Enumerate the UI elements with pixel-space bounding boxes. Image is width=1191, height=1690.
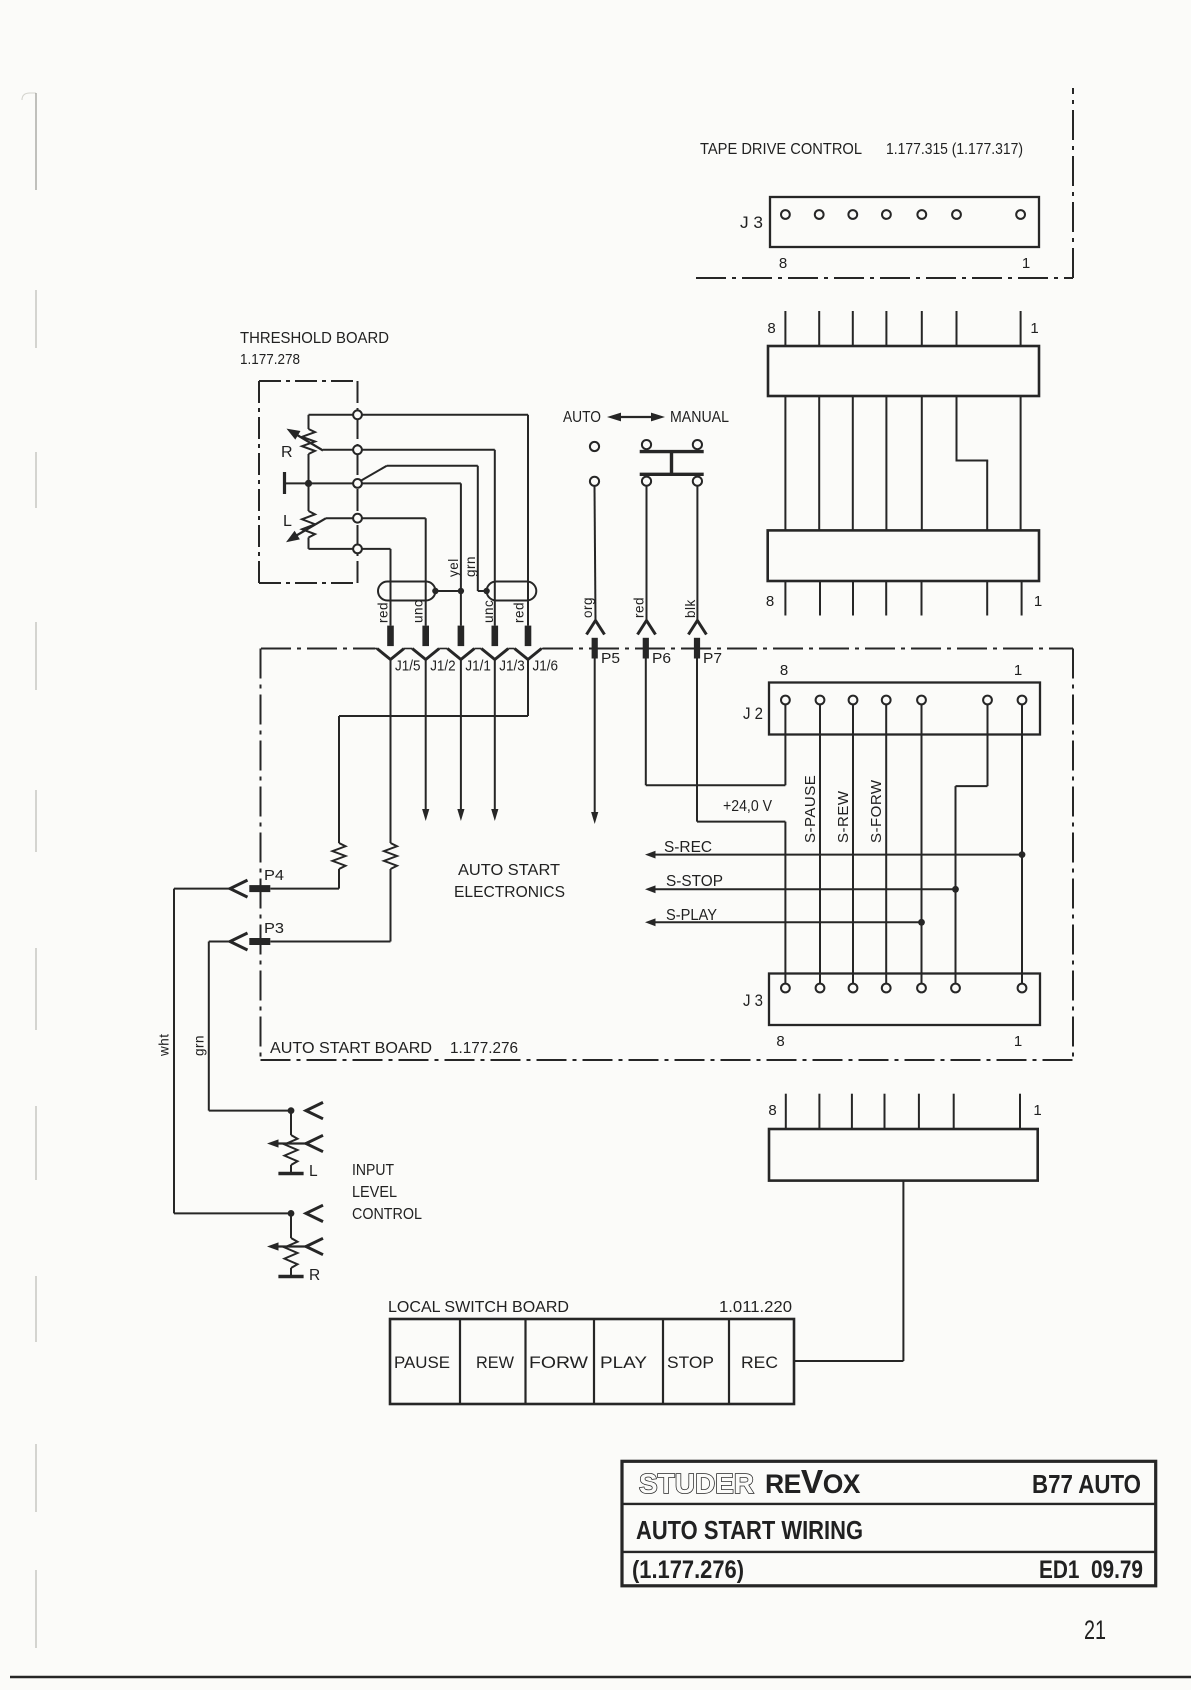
page number 21 [1084, 1615, 1106, 1645]
label P6 [652, 651, 671, 667]
svg-text:LOCAL SWITCH BOARD: LOCAL SWITCH BOARD [388, 1299, 569, 1316]
svg-text:REVOX: REVOX [765, 1464, 861, 1501]
svg-text:1: 1 [1014, 662, 1023, 679]
wire colour label grn (diagonal branch) [463, 556, 478, 577]
cable bundle oval right [487, 582, 537, 601]
svg-text:1.177.276: 1.177.276 [450, 1040, 518, 1057]
svg-text:STOP: STOP [667, 1354, 714, 1372]
svg-text:grn: grn [463, 556, 478, 577]
plug fork P3 [230, 933, 270, 950]
svg-text:J1/3: J1/3 [499, 659, 525, 675]
vertical label grn [191, 1035, 206, 1056]
wire J2.1 to J3.1 [1021, 700, 1023, 988]
wire org AUTO contact to P5 [595, 486, 596, 621]
switch AUTO contacts (open) [590, 442, 599, 486]
scan margin broken vertical line left edge [35, 290, 37, 1648]
svg-text:THRESHOLD BOARD: THRESHOLD BOARD [240, 330, 389, 347]
svg-text:21: 21 [1084, 1615, 1106, 1645]
connector pin J1/3 [492, 626, 499, 647]
svg-text:1.011.220: 1.011.220 [719, 1299, 792, 1316]
wire S-FORW J2.5 to J3.5 [885, 700, 887, 988]
plug label J1/6 [533, 659, 559, 675]
bottom page edge line [10, 1676, 1191, 1678]
dash-dot boundary tape drive control [696, 88, 1073, 278]
svg-text:AUTO START: AUTO START [458, 862, 561, 879]
switch button REC [741, 1354, 778, 1372]
svg-text:wht: wht [156, 1033, 171, 1057]
wire J1/5 to P3 [270, 660, 397, 942]
terminal circles threshold board edge [353, 410, 362, 553]
switch button REW [476, 1354, 514, 1372]
wire red T5 to J1/5 [358, 549, 391, 626]
connector J2 [769, 683, 1040, 735]
label P4 [264, 868, 284, 884]
label J3 [740, 214, 763, 232]
label P5 [601, 651, 620, 667]
connector pin J1/1 [458, 626, 465, 647]
svg-text:P6: P6 [652, 651, 671, 667]
scan margin mark top-left [22, 93, 36, 190]
wire colour label red (J1/5) [376, 602, 391, 623]
wire P5 arrow into electronics [591, 659, 598, 825]
title ED1 09.79 [1039, 1556, 1143, 1584]
wire number 8 (stubs) [766, 593, 775, 610]
svg-text:S-REW: S-REW [835, 790, 852, 843]
title (1.177.276) [632, 1556, 744, 1584]
signal S-PLAY [645, 907, 925, 926]
svg-text:PAUSE: PAUSE [394, 1354, 450, 1372]
wire number 8 (ribbon upper) [767, 320, 776, 337]
wire grn T3 diagonal branch [360, 466, 487, 591]
svg-text:FORW: FORW [529, 1354, 588, 1372]
wire J1/3 arrow into electronics [491, 660, 498, 822]
svg-text:TAPE DRIVE CONTROL: TAPE DRIVE CONTROL [700, 141, 862, 158]
ribbon connector box local switch [769, 1129, 1038, 1181]
svg-text:1: 1 [1014, 1033, 1023, 1050]
svg-text:J1/1: J1/1 [465, 659, 491, 675]
plug label J1/1 [465, 659, 491, 675]
vertical label S-FORW [868, 779, 885, 843]
ribbon cable middle (wires with crossover) [785, 396, 1020, 531]
svg-text:red: red [512, 602, 527, 623]
wire red T1 to J1/6 [358, 415, 529, 626]
svg-text:8: 8 [766, 593, 775, 610]
svg-text:S-REC: S-REC [664, 839, 712, 856]
svg-text:8: 8 [779, 255, 788, 272]
switch button FORW [529, 1354, 588, 1372]
svg-text:P4: P4 [264, 868, 284, 884]
svg-text:INPUT: INPUT [352, 1162, 394, 1179]
wire colour label blk [683, 599, 698, 618]
wire colour label unc (J1/2) [411, 600, 426, 623]
label AUTO START BOARD 1.177.276 [270, 1040, 518, 1057]
plug label J1/3 [499, 659, 525, 675]
svg-text:1.177.315 (1.177.317): 1.177.315 (1.177.317) [886, 141, 1023, 158]
ribbon cable upper (8 wires) [785, 311, 1020, 347]
wire J2.4 to J3.4 [921, 700, 923, 988]
svg-text:P7: P7 [703, 651, 722, 667]
svg-text:red: red [632, 597, 647, 618]
input level pot L [267, 1102, 323, 1173]
svg-text:8: 8 [780, 662, 789, 679]
label J3 (board) [743, 992, 763, 1010]
svg-text:R: R [281, 444, 293, 461]
wire colour label unc (J1/3) [481, 600, 496, 623]
input level pot R [267, 1205, 323, 1276]
pin number 8 (J2) [780, 662, 789, 679]
plug fork P7 [688, 621, 706, 659]
svg-text:AUTO: AUTO [563, 409, 601, 426]
wire S-REW J2.6 to J3.6 [852, 700, 854, 988]
svg-text:STUDER: STUDER [639, 1468, 754, 1499]
wire colour label red (P6) [632, 597, 647, 618]
wire S-PAUSE J2.7 to J3.7 [819, 700, 821, 988]
pin number 8 (J3 tape) [779, 255, 788, 272]
svg-text:(1.177.276): (1.177.276) [632, 1556, 744, 1584]
wire colour label org [580, 597, 595, 618]
signal S-STOP [645, 873, 959, 893]
svg-text:1: 1 [1034, 593, 1043, 610]
svg-text:1: 1 [1030, 320, 1039, 337]
wire P6 to J2 pin 8 [646, 659, 786, 786]
plug label J1/2 [430, 659, 456, 675]
wire grn P3 to input level L [209, 942, 291, 1111]
connector J3 tape drive control [770, 197, 1039, 247]
svg-text:S-STOP: S-STOP [666, 873, 723, 890]
svg-text:L: L [283, 513, 292, 530]
svg-text:unc: unc [481, 600, 496, 623]
label AUTO START ELECTRONICS [454, 862, 565, 901]
svg-text:1: 1 [1033, 1102, 1042, 1119]
wire J1/6 to P4 via resistor [270, 660, 528, 889]
plug fork P6 [638, 621, 656, 659]
title B77 AUTO [1032, 1471, 1141, 1499]
svg-text:+24,0 V: +24,0 V [723, 798, 773, 815]
link wire between bundles [432, 588, 490, 594]
svg-text:P5: P5 [601, 651, 620, 667]
label J2 [743, 705, 763, 723]
pin number 1 (J3 board) [1014, 1033, 1023, 1050]
title TAPE DRIVE CONTROL 1.177.315 (1.177.317) [700, 141, 1023, 158]
svg-text:AUTO START WIRING: AUTO START WIRING [636, 1517, 863, 1545]
potentiometer L (threshold) [286, 483, 358, 549]
wire wht P4 to input level R [174, 889, 291, 1214]
connector J3 auto start board [769, 974, 1040, 1026]
chassis tap bar [285, 472, 309, 494]
vertical label wht [156, 1033, 171, 1057]
pin number 1 (J3 tape) [1022, 255, 1031, 272]
switch button PLAY [600, 1354, 647, 1372]
svg-text:REC: REC [741, 1354, 778, 1372]
wire colour label yel (J1/1) [446, 558, 461, 577]
wire colour label red (J1/6) [512, 602, 527, 623]
plug label J1/5 [395, 659, 421, 675]
wire unc T4 to J1/2 [358, 518, 426, 625]
connector pin J1/2 [422, 626, 429, 647]
wire blk MANUAL contact to P7 [696, 486, 698, 621]
connector pin J1/5 [387, 626, 394, 647]
pin number 1 (J2) [1014, 662, 1023, 679]
svg-text:PLAY: PLAY [600, 1354, 647, 1372]
svg-text:S-PAUSE: S-PAUSE [802, 775, 819, 843]
svg-text:8: 8 [767, 320, 776, 337]
svg-text:AUTO START BOARD: AUTO START BOARD [270, 1040, 432, 1057]
svg-text:J1/2: J1/2 [430, 659, 456, 675]
svg-text:REW: REW [476, 1354, 514, 1372]
ribbon connector box lower [768, 530, 1039, 581]
ribbon stubs to local switch board [786, 1094, 1020, 1130]
wire J2.2 jog to J3.3 [956, 700, 988, 988]
wire number 8 (lower ribbon) [768, 1102, 777, 1119]
svg-text:org: org [580, 597, 595, 618]
wire ribbon to REC switch [794, 1181, 903, 1361]
title block frame [622, 1461, 1156, 1586]
connector pin J1/6 [525, 626, 532, 647]
wire number 1 (lower ribbon) [1033, 1102, 1042, 1119]
svg-text:8: 8 [776, 1033, 785, 1050]
svg-text:B77 AUTO: B77 AUTO [1032, 1471, 1141, 1499]
svg-text:J 2: J 2 [743, 705, 763, 723]
wire number 1 (ribbon upper) [1030, 320, 1039, 337]
svg-text:S-FORW: S-FORW [868, 779, 885, 843]
label AUTO [563, 409, 601, 426]
svg-text:ED1 09.79: ED1 09.79 [1039, 1556, 1143, 1584]
wire yel T3 to J1/1 [358, 483, 461, 625]
svg-text:MANUAL: MANUAL [670, 409, 729, 426]
junction dot pot chain center [305, 480, 358, 487]
double arrow auto-manual [607, 413, 665, 422]
plug fork P4 [230, 880, 270, 897]
label P3 [264, 921, 284, 937]
svg-text:J 3: J 3 [740, 214, 763, 232]
svg-text:J 3: J 3 [743, 992, 763, 1010]
auto start board dash-dot outline [261, 649, 1074, 1061]
connector J3 circles [781, 984, 1026, 993]
label +24,0V [723, 798, 773, 815]
wire J1/1 arrow into electronics [457, 660, 464, 822]
label R (threshold pot) [281, 444, 293, 461]
label R (input level) [309, 1267, 320, 1284]
plug fork P5 [587, 621, 605, 659]
ribbon stubs below box [785, 581, 1021, 616]
ribbon connector box upper [768, 346, 1039, 396]
pin number 8 (J3 board) [776, 1033, 785, 1050]
svg-text:8: 8 [768, 1102, 777, 1119]
signal S-REC [645, 839, 1025, 859]
svg-text:1.177.278: 1.177.278 [240, 351, 300, 368]
svg-text:J1/6: J1/6 [533, 659, 559, 675]
label L (input level) [309, 1163, 318, 1180]
wire unc T2 to J1/3 [358, 450, 495, 626]
svg-text:ELECTRONICS: ELECTRONICS [454, 884, 565, 901]
svg-text:grn: grn [191, 1035, 206, 1056]
cable bundle oval left [378, 582, 435, 601]
title AUTO START WIRING [636, 1517, 863, 1545]
svg-text:unc: unc [411, 600, 426, 623]
svg-text:J1/5: J1/5 [395, 659, 421, 675]
wire red MANUAL contact to P6 [646, 486, 648, 621]
title THRESHOLD BOARD 1.177.278 [240, 330, 389, 368]
svg-text:red: red [376, 602, 391, 623]
potentiometer R (threshold) [287, 429, 358, 484]
wire P7 +24V to J3 pin 8 [697, 659, 785, 989]
wire J1/2 arrow into electronics [422, 660, 429, 822]
vertical label S-REW [835, 790, 852, 843]
svg-text:R: R [309, 1267, 320, 1284]
svg-text:LEVEL: LEVEL [352, 1184, 397, 1201]
wire number 1 (stubs) [1034, 593, 1043, 610]
label INPUT LEVEL CONTROL [352, 1162, 422, 1223]
svg-text:L: L [309, 1163, 318, 1180]
vertical label S-PAUSE [802, 775, 819, 843]
switch button PAUSE [394, 1354, 450, 1372]
title LOCAL SWITCH BOARD 1.011.220 [388, 1299, 792, 1316]
logo STUDER [639, 1468, 754, 1499]
wire T1 top terminal to pot chain [309, 415, 358, 429]
switch MANUAL ganged contacts [640, 440, 704, 486]
threshold board dash-dot outline [259, 381, 358, 583]
label L (threshold pot) [283, 513, 292, 530]
board edge line with plug notches [375, 649, 543, 660]
connector J2 circles [781, 696, 1026, 705]
local switch board box [390, 1319, 794, 1404]
svg-text:P3: P3 [264, 921, 284, 937]
svg-text:yel: yel [446, 558, 461, 577]
logo REVOX [765, 1464, 861, 1501]
label MANUAL [670, 409, 729, 426]
switch button STOP [667, 1354, 714, 1372]
svg-text:1: 1 [1022, 255, 1031, 272]
svg-text:CONTROL: CONTROL [352, 1206, 422, 1223]
label P7 [703, 651, 722, 667]
svg-text:blk: blk [683, 599, 698, 618]
